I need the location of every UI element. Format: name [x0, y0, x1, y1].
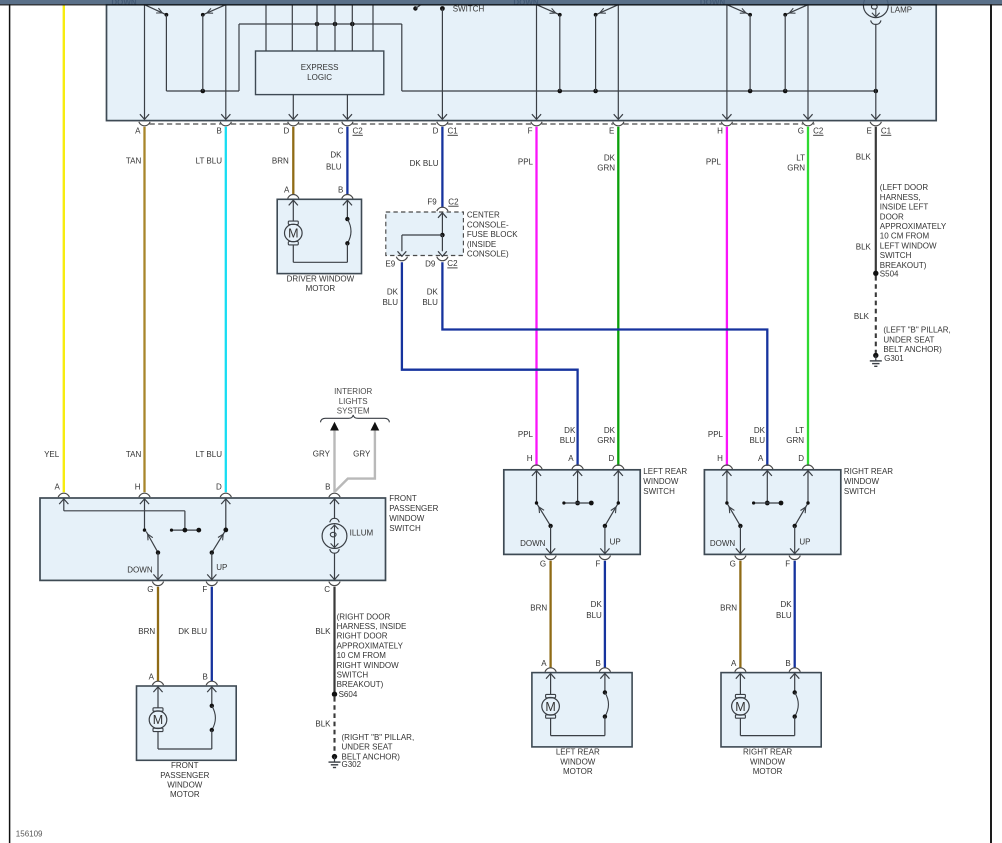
FP switch internal: H pole: [140, 499, 149, 532]
wire GRY left: [333, 431, 335, 493]
svg-text:DK BLU: DK BLU: [178, 627, 207, 636]
svg-text:G: G: [798, 126, 804, 135]
wire LT BLU pin B to FP switch D: [225, 127, 227, 492]
wire BRN pin D to driver motor A: [292, 127, 294, 194]
wire LT GRN pin G to right rear switch D: [807, 127, 809, 466]
wire: pole of S-B down to bus: [202, 15, 204, 91]
svg-text:B: B: [325, 482, 330, 491]
svg-text:DK: DK: [564, 426, 576, 435]
svg-text:PPL: PPL: [518, 158, 534, 167]
wire BLK dashed S504 to G301: [875, 276, 877, 353]
pin E/C1 of master switch connector: [866, 122, 891, 136]
wire: pin D/C1 vertical: [438, 9, 447, 120]
wire DK BLU FP switch F to front motor B: [211, 587, 213, 682]
label right B pillar note: [342, 733, 415, 761]
pin G of left rear switch (bottom): [540, 556, 556, 569]
pin A of right rear window motor: [731, 659, 746, 672]
svg-text:M: M: [735, 700, 745, 714]
svg-text:CONSOLE-: CONSOLE-: [467, 220, 509, 229]
svg-text:MOTOR: MOTOR: [563, 767, 593, 776]
FP UP output to pin F: [207, 553, 227, 580]
svg-text:ILLUM: ILLUM: [350, 529, 374, 538]
svg-text:F: F: [596, 559, 601, 568]
wire BLK dashed S604 to G302: [333, 697, 335, 754]
wire BLK FP switch C to splice S604: [333, 587, 335, 694]
svg-text:M: M: [153, 713, 163, 727]
svg-text:UNDER SEAT: UNDER SEAT: [342, 743, 393, 752]
svg-text:MOTOR: MOTOR: [753, 767, 783, 776]
svg-text:D: D: [433, 126, 439, 135]
svg-text:SYSTEM: SYSTEM: [337, 407, 370, 416]
svg-text:S604: S604: [339, 690, 358, 699]
cut-off DOWN labels under header: [111, 0, 725, 7]
wire: lamp to pin E(C1): [871, 24, 880, 119]
svg-text:F9: F9: [427, 198, 437, 207]
switch S-B blade: [201, 5, 226, 17]
pin B of left rear window motor: [596, 659, 611, 672]
svg-text:DK: DK: [387, 288, 399, 297]
svg-text:C: C: [324, 585, 330, 594]
svg-text:10 CM FROM: 10 CM FROM: [337, 651, 387, 660]
FP switch internal: D pole: [221, 499, 230, 532]
svg-text:BLU: BLU: [422, 298, 438, 307]
svg-text:LAMP: LAMP: [890, 6, 912, 15]
connector harness dashed line C2/C1 row: [150, 123, 815, 125]
pin B of master switch connector: [216, 122, 231, 136]
splice S504: [873, 269, 899, 278]
wire BRN FP switch G to front motor A: [157, 587, 159, 682]
svg-text:B: B: [596, 659, 601, 668]
label right rear window motor: [743, 748, 792, 776]
svg-text:A: A: [54, 482, 60, 491]
svg-text:YEL: YEL: [44, 450, 60, 459]
svg-text:D: D: [798, 454, 804, 463]
svg-text:10 CM FROM: 10 CM FROM: [880, 232, 930, 241]
pin C of FP switch (bottom): [324, 582, 340, 595]
svg-text:BRN: BRN: [272, 157, 289, 166]
svg-text:DOWN: DOWN: [127, 566, 153, 575]
svg-text:LEFT REAR: LEFT REAR: [643, 467, 687, 476]
right page border: [990, 4, 992, 843]
svg-text:SWITCH: SWITCH: [337, 671, 369, 680]
lamp output to pin C: [330, 553, 339, 579]
svg-text:INSIDE LEFT: INSIDE LEFT: [880, 203, 929, 212]
pin H of left rear switch (top): [527, 454, 542, 469]
wire BLK pin E/C1 to splice S504: [875, 127, 877, 273]
pin D of FP switch (top): [216, 482, 231, 497]
right rear DOWN contact blade: [728, 504, 743, 528]
svg-text:A: A: [731, 659, 737, 668]
left rear UP contact blade: [603, 504, 618, 528]
center console fuse block (dashed): [386, 212, 464, 256]
pin H of right rear switch (top): [717, 454, 732, 469]
svg-text:D: D: [609, 454, 615, 463]
left rear window motor internal return wire: [551, 735, 605, 737]
svg-text:GRN: GRN: [597, 164, 615, 173]
svg-text:DK BLU: DK BLU: [410, 159, 439, 168]
driver window motor limit contact arc: [343, 200, 352, 262]
svg-text:B: B: [216, 126, 221, 135]
svg-text:LIGHTS: LIGHTS: [339, 397, 368, 406]
svg-text:LT BLU: LT BLU: [196, 157, 223, 166]
svg-text:INTERIOR: INTERIOR: [334, 387, 372, 396]
svg-text:LT: LT: [795, 426, 804, 435]
svg-text:F: F: [785, 559, 790, 568]
brace over interior lights feeds: [321, 415, 390, 422]
wire DK BLU LR switch F to left rear motor B: [604, 561, 606, 668]
node junctions on right bus: [558, 89, 563, 94]
switch S-D1 (cut off at top): [413, 4, 445, 11]
svg-text:(INSIDE: (INSIDE: [467, 240, 496, 249]
svg-text:D: D: [216, 482, 222, 491]
svg-text:BELT ANCHOR): BELT ANCHOR): [883, 345, 942, 354]
svg-text:LEFT REAR: LEFT REAR: [556, 748, 600, 757]
svg-text:B: B: [338, 186, 343, 195]
pin G of right rear switch (bottom): [730, 556, 746, 569]
pin H of master switch connector: [717, 122, 732, 136]
label CENTER CONSOLE FUSE BLOCK: [467, 211, 518, 259]
fuse block internal wiring: [398, 213, 447, 256]
left rear window motor box: [532, 673, 632, 747]
switch S-E blade: [594, 5, 619, 91]
svg-text:SWITCH: SWITCH: [643, 487, 675, 496]
pin A of FP switch (top): [54, 482, 69, 497]
svg-text:APPROXIMATELY: APPROXIMATELY: [880, 222, 947, 231]
lamp L1 (switch illumination): [863, 0, 888, 24]
pin F of right rear switch (bottom): [785, 556, 800, 569]
svg-text:DOWN: DOWN: [520, 539, 546, 548]
svg-text:C2: C2: [448, 197, 459, 206]
svg-text:FUSE BLOCK: FUSE BLOCK: [467, 230, 518, 239]
wire DK BLU D9 to right rear switch A: [442, 262, 767, 466]
svg-text:A: A: [284, 186, 290, 195]
wire GRY right: [335, 431, 375, 492]
header bar underline: [0, 4, 1002, 5]
pin G of FP switch (bottom): [147, 582, 163, 595]
right rear DOWN output to pin G: [710, 526, 745, 554]
wire: pin B vertical: [221, 5, 230, 120]
svg-text:MOTOR: MOTOR: [306, 284, 336, 293]
svg-text:H: H: [717, 454, 723, 463]
pin B of front passenger window motor: [202, 672, 217, 685]
pin F of FP switch (bottom): [202, 582, 217, 595]
FP UP contact blade: [210, 532, 225, 555]
pin A of master switch connector: [135, 122, 150, 136]
svg-text:BLU: BLU: [749, 436, 765, 445]
svg-text:C2: C2: [353, 126, 364, 135]
svg-text:GRY: GRY: [353, 450, 371, 459]
pin B of right rear window motor: [785, 659, 800, 672]
svg-text:SWITCH: SWITCH: [453, 4, 485, 13]
svg-text:D: D: [284, 126, 290, 135]
svg-text:GRN: GRN: [786, 436, 804, 445]
wire: EXPRESS LOGIC output to pin D: [289, 95, 298, 120]
left rear DOWN output to pin G: [520, 526, 555, 554]
svg-text:E9: E9: [385, 259, 395, 268]
pin A of driver window motor: [284, 186, 299, 199]
driver window motor internal return wire: [293, 261, 347, 263]
svg-text:DK: DK: [604, 154, 616, 163]
svg-text:UP: UP: [799, 537, 810, 546]
svg-text:BLK: BLK: [315, 719, 331, 728]
svg-text:DK: DK: [591, 600, 603, 609]
svg-text:S504: S504: [880, 269, 899, 278]
svg-text:B: B: [202, 672, 207, 681]
pin E9 of fuse block: [385, 257, 407, 269]
svg-text:RIGHT DOOR: RIGHT DOOR: [337, 632, 388, 641]
svg-text:BLK: BLK: [854, 312, 870, 321]
FP switch internal: A feed: [59, 499, 185, 530]
pin D of master switch connector: [284, 122, 299, 136]
pin G/C2 of master switch connector: [798, 122, 824, 136]
svg-text:(RIGHT DOOR: (RIGHT DOOR: [337, 612, 391, 621]
svg-text:G301: G301: [884, 354, 904, 363]
svg-text:PASSENGER: PASSENGER: [160, 771, 209, 780]
svg-text:DRIVER WINDOW: DRIVER WINDOW: [287, 274, 355, 283]
svg-text:PPL: PPL: [706, 158, 722, 167]
svg-text:M: M: [288, 227, 298, 241]
svg-text:DK: DK: [604, 426, 616, 435]
wire: pole of S-A down to bus: [165, 15, 167, 91]
pin H of FP switch (top): [135, 482, 150, 497]
svg-text:BLU: BLU: [586, 611, 602, 620]
svg-text:(RIGHT "B" PILLAR,: (RIGHT "B" PILLAR,: [342, 733, 415, 742]
motor M of driver window motor: [285, 200, 303, 262]
wire: right bus y91: [402, 90, 876, 92]
svg-text:(LEFT DOOR: (LEFT DOOR: [880, 183, 929, 192]
label right door harness note: [337, 612, 407, 689]
pin B of FP switch (top): [325, 482, 340, 497]
svg-text:G: G: [730, 559, 736, 568]
svg-text:F: F: [202, 585, 207, 594]
right rear window motor box: [721, 673, 821, 747]
label LEFT REAR WINDOW SWITCH: [643, 467, 687, 496]
svg-text:F: F: [528, 126, 533, 135]
svg-text:H: H: [717, 126, 723, 135]
svg-text:EXPRESS: EXPRESS: [301, 63, 339, 72]
svg-text:G: G: [540, 559, 546, 568]
pin C/C2 of master switch connector: [338, 122, 364, 136]
wire DK GRN pin E to left rear switch D: [617, 127, 619, 466]
driver/master window switch assembly box: [107, 5, 937, 121]
pin B of driver window motor: [338, 186, 353, 199]
svg-text:SWITCH: SWITCH: [389, 524, 421, 533]
svg-text:LEFT WINDOW: LEFT WINDOW: [880, 241, 937, 250]
pin D of left rear switch (top): [609, 454, 624, 469]
EXPRESS LOGIC module U1: [256, 51, 384, 95]
svg-text:DK: DK: [330, 151, 342, 160]
arrow to interior lights (left): [330, 422, 339, 431]
wire PPL pin F to left rear switch H: [535, 127, 537, 466]
right rear window motor limit contact arc: [790, 674, 799, 736]
svg-text:BLU: BLU: [776, 611, 792, 620]
svg-text:DK: DK: [754, 426, 766, 435]
wire: pin F vertical: [532, 5, 541, 120]
svg-text:FRONT: FRONT: [389, 494, 417, 503]
wire DK BLU pin D/C1 to fuse block F9: [441, 127, 443, 208]
wire PPL pin H to right rear switch H: [726, 127, 728, 466]
pin A of right rear switch (top): [758, 454, 773, 469]
svg-text:WINDOW: WINDOW: [560, 757, 596, 766]
label left rear window motor: [556, 748, 600, 776]
svg-text:LOGIC: LOGIC: [307, 73, 332, 82]
svg-text:TAN: TAN: [126, 157, 142, 166]
svg-text:PPL: PPL: [708, 430, 724, 439]
wire BRN LR switch G to left rear motor A: [549, 561, 551, 668]
svg-text:MOTOR: MOTOR: [170, 790, 200, 799]
svg-text:GRN: GRN: [787, 164, 805, 173]
pin D/C1 of master switch connector: [433, 122, 459, 136]
svg-text:BLK: BLK: [315, 627, 331, 636]
node junctions on upper feed: [315, 22, 320, 27]
svg-text:(LEFT "B" PILLAR,: (LEFT "B" PILLAR,: [883, 326, 950, 335]
label INTERIOR LIGHTS SYSTEM: [334, 387, 372, 416]
svg-text:WINDOW: WINDOW: [750, 757, 786, 766]
wire DK BLU pin C to driver motor B: [346, 127, 348, 194]
lamp ILLUM in FP switch: [322, 499, 373, 553]
motor M of front passenger window motor: [149, 687, 167, 749]
front passenger window motor limit contact arc: [207, 687, 216, 749]
wire: pin A vertical inside master switch: [140, 5, 149, 120]
svg-text:A: A: [149, 672, 155, 681]
svg-text:UNDER SEAT: UNDER SEAT: [883, 335, 934, 344]
pin D9/C2 of fuse block: [425, 257, 458, 269]
svg-text:WINDOW: WINDOW: [389, 514, 425, 523]
left rear DOWN contact blade: [537, 504, 553, 528]
svg-text:BLU: BLU: [326, 163, 342, 172]
wire: pin H vertical: [722, 5, 731, 120]
top header bar: [0, 0, 1002, 4]
wire: corner down to right bus: [401, 24, 403, 91]
svg-text:G302: G302: [342, 760, 362, 769]
svg-text:LT BLU: LT BLU: [196, 450, 223, 459]
svg-text:SWITCH: SWITCH: [844, 487, 876, 496]
svg-text:LT: LT: [796, 154, 805, 163]
right rear switch internal poles and bus: [722, 471, 812, 506]
front passenger window motor internal return wire: [158, 748, 212, 750]
left rear switch internal poles and bus: [532, 471, 623, 506]
pin E of master switch connector: [609, 122, 624, 136]
wire: pin G vertical: [803, 5, 812, 120]
svg-text:C2: C2: [813, 126, 824, 135]
FP DOWN output to pin G: [127, 553, 162, 580]
pin F of left rear switch (bottom): [596, 556, 611, 569]
svg-text:BLU: BLU: [382, 298, 398, 307]
label RIGHT REAR WINDOW SWITCH: [844, 467, 893, 496]
label front passenger window motor: [160, 761, 209, 799]
splice S604: [332, 690, 358, 699]
svg-text:RIGHT REAR: RIGHT REAR: [844, 467, 893, 476]
svg-text:E: E: [866, 126, 871, 135]
svg-text:H: H: [135, 482, 141, 491]
svg-text:RIGHT REAR: RIGHT REAR: [743, 748, 792, 757]
svg-text:M: M: [545, 700, 555, 714]
svg-text:HARNESS,: HARNESS,: [880, 193, 921, 202]
svg-text:BLK: BLK: [856, 152, 872, 161]
pin F of master switch connector: [528, 122, 542, 136]
svg-text:GRY: GRY: [313, 450, 331, 459]
svg-text:BREAKOUT): BREAKOUT): [337, 680, 384, 689]
svg-text:DOOR: DOOR: [880, 212, 904, 221]
svg-text:BRN: BRN: [530, 604, 547, 613]
label left door harness note: [880, 183, 947, 270]
svg-text:C2: C2: [447, 259, 458, 268]
pin A of left rear switch (top): [568, 454, 583, 469]
label left B pillar note: [883, 326, 950, 354]
right rear window motor internal return wire: [740, 735, 794, 737]
left rear UP output to pin F: [600, 526, 620, 554]
ground G302: [329, 754, 362, 769]
svg-text:C1: C1: [881, 126, 892, 135]
left page border: [9, 4, 11, 843]
svg-text:SWITCH: SWITCH: [880, 251, 912, 260]
right rear UP contact blade: [793, 504, 808, 528]
svg-text:D9: D9: [425, 259, 436, 268]
wire: pin E vertical: [614, 5, 623, 120]
svg-text:156109: 156109: [16, 830, 43, 839]
svg-text:HARNESS, INSIDE: HARNESS, INSIDE: [337, 622, 407, 631]
front passenger window motor box: [137, 686, 237, 760]
right rear UP output to pin F: [790, 526, 810, 554]
svg-text:DOWN: DOWN: [710, 539, 736, 548]
node: junction on bus: [201, 89, 206, 94]
svg-text:TAN: TAN: [126, 450, 142, 459]
svg-text:BLU: BLU: [560, 436, 576, 445]
svg-text:UP: UP: [610, 537, 621, 546]
right rear window switch box: [704, 470, 840, 555]
pin D of right rear switch (top): [798, 454, 813, 469]
wire: bus segment y91 left: [166, 90, 239, 92]
svg-text:FRONT: FRONT: [171, 761, 199, 770]
label driver window motor: [287, 274, 355, 293]
switch S-H blade: [727, 5, 752, 91]
FP DOWN contact blade: [146, 532, 160, 555]
pin F9/C2 of fuse block: [427, 197, 459, 211]
svg-text:BLK: BLK: [856, 242, 872, 251]
svg-text:DK: DK: [780, 600, 792, 609]
svg-text:A: A: [135, 126, 141, 135]
driver window motor box: [277, 199, 361, 273]
label FRONT PASSENGER WINDOW SWITCH: [389, 494, 438, 533]
svg-text:A: A: [568, 454, 574, 463]
wire: riser from bus to upper feed: [238, 24, 240, 91]
wire TAN pin A to FP switch H: [143, 127, 145, 492]
switch S-G blade: [783, 5, 808, 91]
svg-text:CONSOLE): CONSOLE): [467, 250, 509, 259]
svg-text:B: B: [785, 659, 790, 668]
svg-text:C1: C1: [448, 126, 459, 135]
pin A of left rear window motor: [541, 659, 556, 672]
svg-text:H: H: [527, 454, 533, 463]
svg-text:G: G: [147, 585, 153, 594]
left rear window switch box: [504, 470, 640, 555]
wire YEL (battery feed to front passenger switch): [63, 5, 65, 493]
front passenger window switch box: [40, 498, 386, 580]
svg-text:UP: UP: [216, 563, 227, 572]
wires: six feeds into EXPRESS LOGIC top: [266, 5, 373, 51]
svg-text:BRN: BRN: [138, 627, 155, 636]
motor M of right rear window motor: [732, 674, 750, 736]
svg-text:GRN: GRN: [597, 436, 615, 445]
svg-text:CENTER: CENTER: [467, 211, 500, 220]
svg-text:PPL: PPL: [518, 430, 534, 439]
svg-text:BRN: BRN: [720, 604, 737, 613]
ground G301: [870, 353, 904, 367]
wire: EXPRESS LOGIC output to pin C: [343, 95, 352, 120]
arrow to interior lights (right): [371, 422, 380, 431]
svg-text:WINDOW: WINDOW: [643, 477, 679, 486]
switch S-F blade: [537, 5, 562, 91]
